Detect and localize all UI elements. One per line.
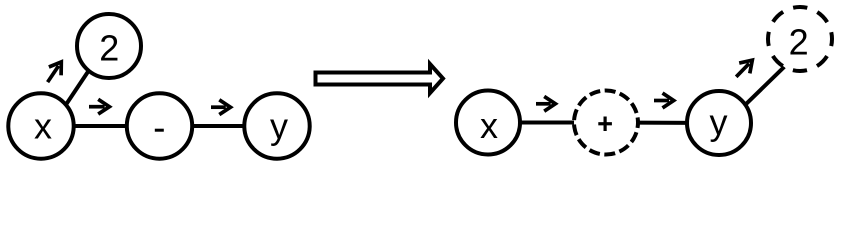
svg-text:y: y [270,106,288,147]
node 2R dashed circle [768,7,832,71]
wire yR-2R diagonal [740,67,785,110]
node xR circle [456,91,520,155]
big rewrite arrow [316,64,444,93]
wire xL-2L diagonal [61,66,92,113]
arrow L1 (x to minus) [89,99,109,114]
svg-text:x: x [480,105,498,146]
node minusL label [155,129,164,132]
node xL circle [8,93,73,158]
arrow R diag (y to 2) [736,60,752,77]
svg-text:2: 2 [99,28,119,69]
wire xR-plusR [488,121,606,125]
node yL circle [244,93,309,158]
node plusR label [598,117,612,132]
node minusL circle [127,93,192,158]
svg-text:x: x [34,106,52,147]
arrow L2 (minus to y) [211,100,231,115]
wire xL-minusL [41,124,160,128]
node 2L circle [77,14,141,78]
node yR circle [687,91,751,155]
arrow L diag (x to 2) [48,62,62,82]
wire minusL-yL [160,124,278,128]
node plusR dashed circle [574,91,638,155]
arrow R2 (plus to y) [654,93,674,108]
arrow R1 (x to plus) [536,96,555,111]
wire plusR-yR [606,121,719,126]
svg-text:2: 2 [789,22,809,63]
svg-text:y: y [710,102,728,143]
